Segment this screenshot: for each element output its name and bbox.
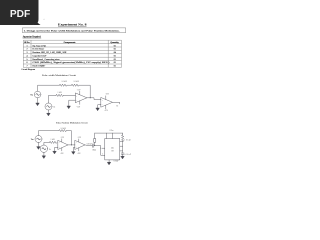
pin 5 stub bbox=[102, 147, 105, 149]
svg-text:Capacitor 0.1uF: Capacitor 0.1uF bbox=[33, 55, 48, 57]
resistor RA vertical bbox=[122, 135, 124, 142]
svg-text:Components: Components bbox=[64, 42, 76, 44]
resistor R3 bbox=[56, 94, 64, 96]
table rows bbox=[27, 44, 117, 67]
svg-text:PDF: PDF bbox=[10, 9, 30, 20]
source V1 (message Vm) bbox=[34, 91, 41, 98]
PDF badge bbox=[0, 0, 41, 25]
op-amp U4 bbox=[75, 139, 85, 151]
svg-text:Sl No.: Sl No. bbox=[24, 42, 30, 44]
wire R4 to node B bbox=[67, 131, 72, 145]
wire U3 output to U4 bbox=[68, 144, 75, 146]
wire rail to pin 8 bbox=[105, 133, 107, 138]
svg-text:Quantity: Quantity bbox=[110, 42, 119, 44]
svg-text:5: 5 bbox=[27, 59, 28, 61]
wire U2 output Vo bbox=[113, 102, 120, 104]
svg-text:0.01uF: 0.01uF bbox=[124, 154, 130, 156]
svg-text:01: 01 bbox=[114, 66, 116, 68]
svg-text:0.01uF: 0.01uF bbox=[114, 160, 119, 162]
svg-text:6: 6 bbox=[27, 62, 28, 64]
wire rail to pin 4 bbox=[112, 133, 114, 138]
svg-text:1. Design and test the Pulse w: 1. Design and test the Pulse width Modul… bbox=[24, 30, 121, 33]
Vcc rail bbox=[95, 132, 123, 134]
heading Apparatus Required bbox=[23, 35, 42, 38]
wire C1 to trigger node bbox=[94, 146, 105, 156]
svg-text:1k: 1k bbox=[53, 107, 55, 109]
wire pin 1 to ground bbox=[108, 160, 110, 162]
svg-text:+: + bbox=[59, 147, 60, 149]
svg-text:10kΩ: 10kΩ bbox=[124, 139, 131, 141]
svg-text:555: 555 bbox=[111, 148, 114, 150]
svg-text:BreadBoard , Connecting wires: BreadBoard , Connecting wires bbox=[33, 58, 60, 61]
resistor R1 bbox=[60, 84, 68, 86]
node A junction dot bbox=[90, 97, 91, 98]
svg-text:2: 2 bbox=[27, 49, 28, 51]
ground G4 bbox=[96, 108, 99, 111]
ground G8 bbox=[72, 152, 75, 155]
svg-text:01: 01 bbox=[114, 62, 116, 64]
svg-text:01: 01 bbox=[114, 55, 116, 57]
op-amp U3 bbox=[58, 139, 68, 151]
svg-text:IC 555 Timer: IC 555 Timer bbox=[33, 49, 45, 51]
source V4 (carrier) bbox=[40, 145, 47, 152]
wire U4 output to C1 bbox=[85, 144, 92, 147]
wire R1 to R2 bbox=[67, 84, 72, 86]
resistor R5 bbox=[50, 141, 58, 143]
svg-text:3: 3 bbox=[27, 52, 28, 54]
ground G7 bbox=[53, 151, 56, 154]
ground G3 bbox=[67, 106, 70, 109]
wire RA to pins 7 and 6 bbox=[120, 142, 123, 151]
resistor R2 bbox=[72, 84, 79, 86]
svg-text:1kΩ: 1kΩ bbox=[58, 92, 63, 94]
ground G1 under Vm bbox=[36, 98, 39, 106]
aim box bbox=[22, 28, 125, 33]
ground G6 under carrier2 bbox=[42, 152, 45, 158]
op-amp U1 bbox=[76, 91, 88, 104]
svg-text:1: 1 bbox=[27, 45, 28, 47]
svg-text:+15V: +15V bbox=[105, 94, 110, 96]
node B junction dot bbox=[71, 144, 72, 145]
svg-text:01: 01 bbox=[114, 59, 116, 61]
node C junction dot bbox=[93, 144, 96, 147]
capacitor C2 timing bbox=[121, 153, 124, 156]
wire U3 plus input to ground bbox=[55, 147, 58, 151]
wire node to C2 bbox=[122, 151, 124, 153]
wire rail to RA bbox=[122, 133, 124, 135]
svg-text:10kΩ: 10kΩ bbox=[61, 128, 67, 130]
apparatus table bbox=[23, 40, 121, 67]
svg-text:Pulse width Modulation Circuit: Pulse width Modulation Circuit bbox=[42, 75, 76, 77]
svg-text:+15V: +15V bbox=[77, 90, 82, 92]
wire R2 to node A bbox=[79, 85, 90, 98]
wire output pin 3 bbox=[120, 141, 123, 143]
wire U1 output to U2 bbox=[87, 98, 101, 100]
svg-text:CRO (60MHz), Signal generator(: CRO (60MHz), Signal generator(3MHz), DC … bbox=[33, 61, 110, 64]
svg-text:10kΩ: 10kΩ bbox=[74, 81, 80, 83]
svg-text:+: + bbox=[102, 105, 103, 107]
svg-text:Resistor 10K, 1K, 1.5K, 100K,: Resistor 10K, 1K, 1.5K, 100K, 10K bbox=[33, 52, 67, 54]
source V2 (carrier) bbox=[45, 103, 52, 110]
svg-text:Apparatus Required:: Apparatus Required: bbox=[23, 35, 42, 38]
resistor R6 pull-up bbox=[94, 133, 96, 146]
resistor R4 bbox=[59, 130, 67, 132]
wire U1 plus input to ground bbox=[69, 100, 76, 106]
svg-text:+: + bbox=[76, 147, 77, 149]
svg-text:0.01uF: 0.01uF bbox=[87, 143, 92, 145]
ground G5 under Vm2 bbox=[37, 143, 40, 150]
svg-text:01: 01 bbox=[114, 49, 116, 51]
table header bbox=[24, 42, 119, 44]
wire U2 plus input to ground bbox=[98, 105, 101, 108]
op-amp U2 bbox=[101, 96, 113, 109]
svg-text:+5Vcc: +5Vcc bbox=[109, 130, 114, 132]
wire V2 to R3 bbox=[49, 95, 57, 103]
svg-text:Pulse Position Modulation Circ: Pulse Position Modulation Circuit bbox=[56, 123, 88, 125]
wire Vm to R1 bbox=[38, 85, 60, 91]
capacitor C1 coupling bbox=[92, 144, 93, 148]
IC 555 timer U5 bbox=[105, 139, 120, 160]
ground G10 under C2 bbox=[121, 156, 124, 159]
wire R3 to op-amp U1 bbox=[64, 94, 76, 96]
svg-text:+: + bbox=[76, 100, 77, 102]
svg-text:1kΩ: 1kΩ bbox=[51, 139, 56, 141]
source V3 (message Vm) bbox=[35, 136, 42, 143]
title Experiment No. 8 bbox=[58, 23, 87, 27]
wire Vm2 to R4 bbox=[39, 131, 60, 136]
svg-text:Op Amp uA741: Op Amp uA741 bbox=[33, 44, 47, 47]
wire U4 plus input to ground bbox=[73, 147, 75, 151]
svg-text:1k: 1k bbox=[49, 149, 51, 151]
svg-text:Experiment No. 8: Experiment No. 8 bbox=[58, 23, 87, 27]
ground G11 under 555 bbox=[107, 162, 110, 165]
svg-text:Circuit Diagram: Circuit Diagram bbox=[21, 68, 36, 71]
svg-text:Vo: Vo bbox=[116, 105, 118, 107]
svg-text:01: 01 bbox=[114, 45, 116, 47]
svg-text:10kΩ: 10kΩ bbox=[62, 81, 68, 83]
wire V4 to R5 bbox=[44, 142, 50, 145]
ground G2 under carrier bbox=[47, 110, 50, 116]
